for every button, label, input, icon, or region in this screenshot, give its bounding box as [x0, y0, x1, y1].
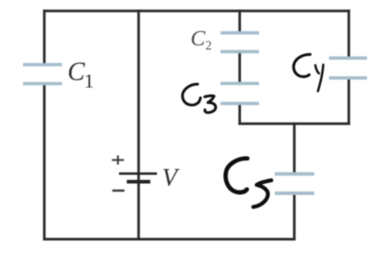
svg-text:1: 1 [84, 71, 94, 93]
svg-text:C: C [68, 57, 86, 86]
svg-text:2: 2 [206, 38, 212, 52]
svg-text:C: C [191, 25, 206, 50]
svg-text:V: V [162, 165, 180, 192]
